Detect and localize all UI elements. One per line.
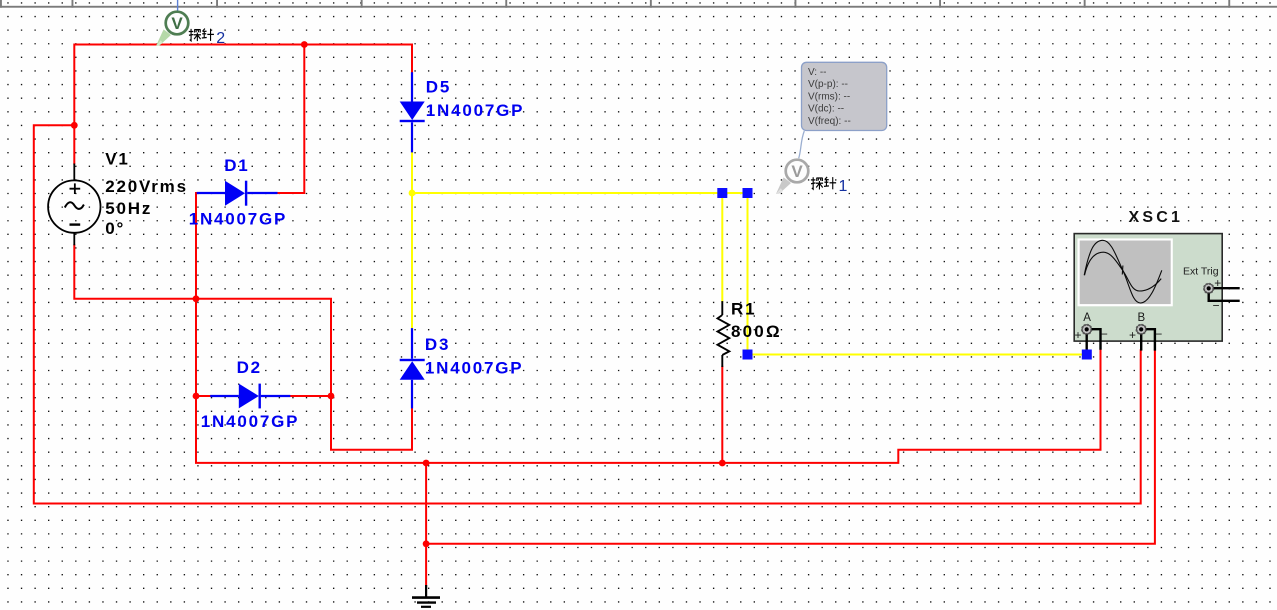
svg-text:V: V <box>791 162 803 181</box>
svg-text:R1: R1 <box>731 300 756 319</box>
svg-text:1N4007GP: 1N4007GP <box>425 358 524 377</box>
svg-text:V(freq): --: V(freq): -- <box>808 116 851 127</box>
svg-text:D3: D3 <box>425 335 450 354</box>
svg-text:V(dc): --: V(dc): -- <box>808 104 844 115</box>
svg-text:+: + <box>1129 328 1136 342</box>
svg-text:XSC1: XSC1 <box>1129 209 1184 226</box>
svg-text:−: − <box>1155 327 1162 341</box>
svg-text:1N4007GP: 1N4007GP <box>201 412 300 431</box>
svg-text:2: 2 <box>216 30 225 47</box>
svg-text:V: --: V: -- <box>808 67 827 78</box>
svg-text:D2: D2 <box>237 358 262 377</box>
svg-text:V1: V1 <box>105 149 129 168</box>
svg-text:Ext Trig: Ext Trig <box>1183 266 1219 278</box>
svg-text:800Ω: 800Ω <box>731 322 782 341</box>
svg-text:A: A <box>1083 312 1091 324</box>
svg-text:+: + <box>1214 276 1221 290</box>
svg-text:+: + <box>1075 328 1082 342</box>
svg-text:1N4007GP: 1N4007GP <box>189 209 288 228</box>
svg-text:−: − <box>1101 327 1108 341</box>
svg-text:D5: D5 <box>426 78 451 97</box>
svg-text:220Vrms: 220Vrms <box>105 177 188 196</box>
svg-text:1: 1 <box>839 178 848 195</box>
svg-text:D1: D1 <box>224 156 249 175</box>
svg-text:B: B <box>1138 312 1146 324</box>
svg-text:1N4007GP: 1N4007GP <box>426 101 525 120</box>
svg-text:−: − <box>1213 299 1220 313</box>
svg-text:50Hz: 50Hz <box>105 199 152 218</box>
svg-text:0°: 0° <box>105 219 125 238</box>
svg-text:V(p-p): --: V(p-p): -- <box>808 79 848 90</box>
svg-text:V(rms): --: V(rms): -- <box>808 91 850 102</box>
svg-text:V: V <box>171 14 183 33</box>
